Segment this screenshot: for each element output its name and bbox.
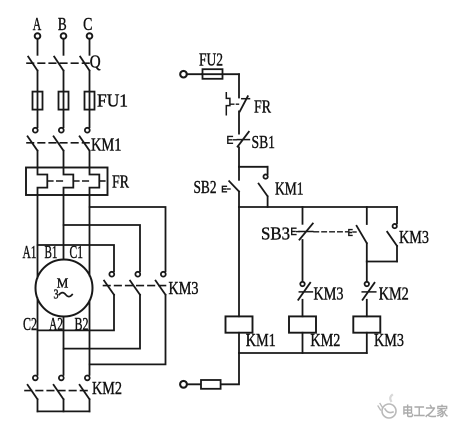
wire B terminal to switch Q — [63, 39, 65, 54]
wire KM1 to FR box pole2 — [63, 151, 65, 168]
wire motor B2 down to KM2 contact3 — [89, 301, 91, 375]
svg-text:FU2: FU2 — [199, 50, 223, 70]
wire rail to KM3 self-hold contact — [396, 207, 398, 223]
stop button SB1 actuator E — [228, 136, 233, 143]
fuse FU1 pole1 internal wire — [37, 92, 39, 110]
wire A terminal to switch Q — [37, 39, 39, 54]
wire Q to fuse FU1 pole1 — [37, 71, 39, 128]
svg-text:KM2: KM2 — [92, 378, 122, 398]
FR NC contact blade — [240, 96, 248, 111]
wire SB2 to rail2 — [238, 192, 240, 208]
contactor KM1 main contact 1 — [28, 128, 38, 151]
delta wire B2 to KM3 contact3 bottom — [90, 295, 166, 365]
svg-text:SB2: SB2 — [194, 177, 217, 197]
SB2 actuator E — [222, 186, 226, 192]
svg-text:3: 3 — [54, 287, 59, 302]
fuse FU1 pole 2 — [59, 92, 69, 110]
contactor KM2 linkage dashed — [25, 390, 91, 392]
delta wire A2 to KM3 contact2 bottom — [64, 295, 141, 349]
svg-text:KM3: KM3 — [169, 278, 199, 298]
FR heater element 2 — [64, 168, 74, 196]
svg-text:B: B — [58, 14, 67, 34]
svg-text:SB3: SB3 — [261, 224, 290, 244]
svg-text:KM3: KM3 — [314, 284, 344, 304]
contactor KM3 linkage dashed — [104, 285, 169, 287]
wire FR to motor A1 — [37, 195, 39, 278]
SB3 second actuator dash — [353, 231, 356, 233]
node wire joining SB3 NO and KM3 contact — [367, 261, 397, 263]
SB1 NC bar — [237, 139, 249, 141]
fuse FU1 pole 3 — [85, 92, 95, 110]
thermal relay FR box — [26, 168, 108, 196]
SB3 NC blade — [300, 224, 313, 240]
KM1 auxiliary NO contact — [259, 174, 268, 196]
svg-text:M: M — [57, 277, 69, 292]
svg-text:KM3: KM3 — [399, 227, 429, 247]
svg-text:C1: C1 — [70, 242, 84, 262]
wire branch phase C to KM3 contact3 top — [90, 207, 166, 271]
svg-text:FR: FR — [112, 172, 129, 192]
contactor KM3 main contact 1 — [104, 272, 114, 295]
star point bus — [38, 410, 90, 412]
wire FR to motor B1 — [63, 195, 65, 260]
contactor coil KM1 — [226, 316, 253, 332]
wire KM1 coil to bottom bus — [238, 333, 240, 353]
terminal A — [35, 33, 41, 39]
wire KM3 interlock to KM2 coil — [302, 300, 304, 317]
svg-text:KM1: KM1 — [275, 179, 304, 199]
fuse FU2 internal wire — [202, 73, 239, 75]
wire KM1 to FR box pole1 — [37, 151, 39, 168]
watermark logo — [378, 395, 396, 418]
wire bus down to bottom fuse — [221, 353, 239, 384]
svg-text:Q: Q — [90, 52, 101, 72]
control bottom bus — [239, 352, 367, 354]
svg-text:KM2: KM2 — [310, 330, 340, 350]
fuse FU2 — [203, 69, 223, 79]
bottom fuse — [201, 380, 221, 389]
wire Q to fuse FU1 pole3 — [89, 71, 91, 128]
SB2 actuator dash — [227, 188, 230, 190]
branch rail above SB2 — [239, 166, 268, 168]
wire branch phase B to KM3 contact2 top — [64, 225, 141, 271]
fuse FU1 pole 1 — [33, 92, 43, 110]
switch Q pole 2 blade — [54, 57, 63, 71]
svg-text:KM1: KM1 — [91, 135, 122, 155]
FR trip actuator — [226, 93, 230, 115]
SB2 NO blade — [229, 181, 239, 191]
wire rail to SB3 — [302, 207, 304, 224]
svg-text:KM1: KM1 — [246, 330, 276, 350]
wire motor C2 down to KM2 contact1 — [37, 298, 39, 374]
KM3 self-hold NO contact — [387, 224, 397, 246]
control terminal bottom — [180, 381, 187, 388]
FR contact linkage dashed — [231, 103, 239, 105]
wire KM2 contact1 to star bus — [37, 399, 39, 411]
SB1 NC blade — [238, 132, 249, 147]
delta wire C2 to KM3 contact1 bottom — [38, 295, 115, 331]
terminal B — [61, 33, 67, 39]
SB3 second actuator E — [349, 230, 352, 236]
switch Q pole 3 blade — [80, 57, 89, 71]
svg-text:A1: A1 — [23, 242, 37, 262]
contactor KM2 main contact 2 — [54, 376, 64, 400]
contactor KM3 main contact 2 — [130, 272, 140, 295]
SB3 actuator dash — [297, 231, 300, 233]
terminal C — [87, 33, 93, 39]
SB3 NO blade — [357, 226, 367, 243]
wire to KM1 aux contact — [267, 167, 269, 174]
wire KM3 coil to bottom bus — [366, 333, 368, 353]
wire motor A2 down to KM2 contact2 — [63, 317, 65, 375]
switch Q pole 1 blade — [28, 57, 37, 71]
wire junction to SB2 — [238, 167, 240, 180]
wire rail to KM1 coil — [238, 207, 240, 316]
control terminal top — [180, 71, 187, 78]
svg-text:电工之家: 电工之家 — [402, 404, 449, 419]
wire SB1 to junction — [238, 147, 240, 166]
svg-text:KM2: KM2 — [379, 284, 409, 304]
contactor coil KM2 — [289, 316, 316, 332]
SB3 actuator E — [292, 228, 296, 234]
svg-text:C: C — [83, 14, 92, 34]
wire Q to fuse FU1 pole2 — [63, 71, 65, 128]
wire KM3 self-hold to node — [396, 246, 398, 262]
svg-text:A: A — [33, 14, 42, 34]
wire KM1 aux to rail — [267, 196, 269, 207]
KM3 interlock NC contact — [298, 282, 312, 300]
wire terminal to FU2 — [187, 73, 202, 75]
SB3 NC bar — [299, 231, 313, 233]
FR linkage dashed segment 2 — [73, 180, 89, 182]
control rail below SB2 — [239, 206, 397, 208]
FR heater element 3 — [90, 168, 100, 196]
KM2 interlock NC contact — [362, 282, 376, 300]
contactor KM3 main contact 3 — [156, 272, 166, 295]
contactor KM1 main contact 3 — [80, 128, 90, 151]
wire node to KM2 interlock — [366, 262, 368, 282]
wire FR to motor C1 — [89, 195, 91, 275]
wire KM2 contact2 to star bus — [63, 399, 65, 411]
FR linkage dashed segment 3 — [99, 180, 107, 182]
svg-text:C2: C2 — [23, 314, 37, 334]
wire SB3 NC to KM3 interlock — [302, 240, 304, 282]
wire FU2 down to FR contact — [238, 74, 240, 97]
motor tilde — [59, 293, 72, 297]
switch Q linkage dashed — [27, 62, 91, 64]
svg-text:SB1: SB1 — [252, 132, 276, 152]
svg-text:B1: B1 — [45, 242, 58, 262]
wire KM1 to FR box pole3 — [89, 151, 91, 168]
wire KM2 contact3 to star bus — [89, 399, 91, 411]
FR linkage dashed segment 1 — [47, 180, 63, 182]
fuse FU1 pole3 internal wire — [89, 92, 91, 110]
wire KM2 interlock to KM3 coil — [366, 300, 368, 317]
contactor KM1 main contact 2 — [54, 128, 64, 151]
bottom fuse internal wire — [187, 383, 221, 385]
contactor KM1 linkage dashed — [27, 142, 91, 144]
svg-text:FR: FR — [254, 97, 271, 117]
wire rail to SB3 NO contact — [366, 207, 368, 224]
wire branch phase A to KM3 contact1 top — [38, 245, 115, 271]
FR heater element 1 — [38, 168, 48, 196]
SB3 linkage dashed to NO contact — [314, 231, 348, 233]
wire C terminal to switch Q — [89, 39, 91, 54]
svg-text:FU1: FU1 — [97, 91, 128, 111]
SB1 actuator dash — [233, 139, 236, 141]
fuse FU1 pole2 internal wire — [63, 92, 65, 110]
wire KM2 coil to bottom bus — [302, 333, 304, 353]
contactor KM2 main contact 3 — [80, 376, 90, 400]
FR NC contact bar — [242, 98, 250, 100]
wire SB3 NO to node — [366, 243, 368, 261]
motor M circle — [36, 260, 93, 317]
wire FR to SB1 — [238, 111, 240, 133]
svg-text:KM3: KM3 — [374, 330, 404, 350]
contactor coil KM3 — [353, 316, 380, 332]
contactor KM2 main contact 1 — [28, 376, 38, 400]
